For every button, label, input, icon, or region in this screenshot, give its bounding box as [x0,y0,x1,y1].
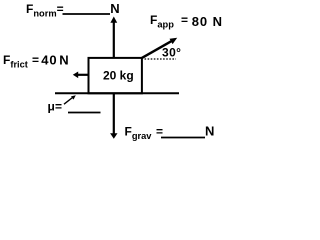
svg-text:N: N [213,14,222,29]
label F_grav = ___ N [125,124,215,142]
force arrow F_frict (left) [73,72,88,79]
svg-text:N: N [205,124,214,139]
force arrow F_norm (up) [110,17,117,59]
svg-text:30°: 30° [162,46,181,60]
svg-text:80: 80 [192,14,208,29]
dotted reference line for angle [145,58,177,60]
svg-text:Fapp=: Fapp= [150,13,188,30]
label F_app = 80 N [150,13,222,30]
block mass box 20 kg [89,58,142,93]
surface line [55,92,179,94]
svg-text:N: N [59,53,68,68]
label mu = ___ [48,100,101,114]
svg-text:40: 40 [41,53,57,68]
svg-text:μ: μ [48,100,55,114]
svg-text:Fgrav=: Fgrav= [125,125,164,142]
svg-text:=: = [55,100,62,114]
force arrow F_grav (down) [110,93,117,138]
force arrow F_app (30 deg up-right) [142,38,177,58]
pointer arrow from mu to surface [64,95,76,104]
svg-text:N: N [110,1,119,16]
svg-text:20 kg: 20 kg [103,69,134,83]
svg-text:Ffrict=: Ffrict= [3,53,39,70]
label F_norm = ___ N [26,1,120,19]
label F_frict = 40 N [3,53,69,70]
svg-text:Fnorm=: Fnorm= [26,2,64,19]
